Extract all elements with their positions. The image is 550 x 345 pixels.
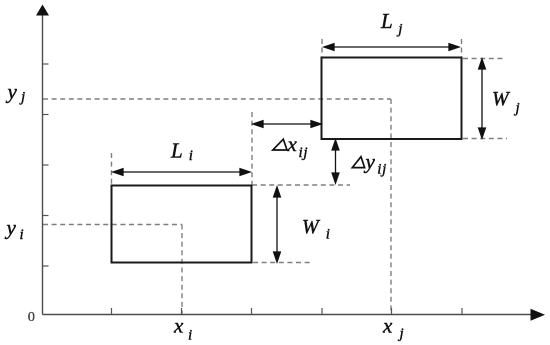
svg-text:i: i	[189, 148, 193, 164]
svg-text:i: i	[326, 227, 330, 243]
svg-text:ij: ij	[299, 145, 308, 161]
svg-text:y: y	[364, 149, 376, 173]
svg-text:i: i	[20, 227, 24, 243]
svg-text:x: x	[382, 314, 393, 338]
svg-text:L: L	[170, 139, 183, 163]
svg-text:W: W	[492, 88, 511, 110]
svg-text:0: 0	[28, 310, 35, 325]
svg-text:W: W	[302, 216, 321, 238]
svg-text:y: y	[6, 80, 18, 104]
svg-text:i: i	[188, 327, 192, 343]
svg-text:x: x	[287, 132, 298, 156]
svg-text:y: y	[5, 216, 17, 240]
svg-text:L: L	[380, 9, 393, 33]
svg-text:x: x	[173, 314, 184, 338]
svg-text:ij: ij	[377, 162, 386, 178]
